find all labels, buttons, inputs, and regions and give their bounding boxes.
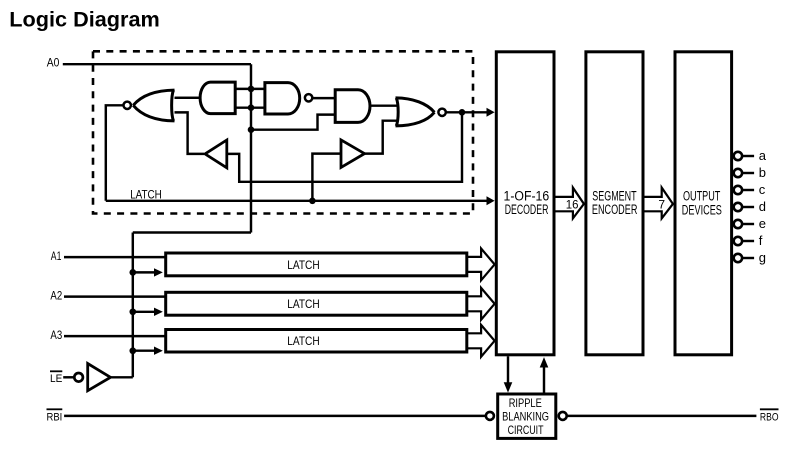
- svg-text:RBI: RBI: [47, 412, 63, 424]
- junction dot enable latch2: [129, 308, 136, 315]
- svg-text:b: b: [759, 165, 766, 180]
- svg-text:e: e: [759, 216, 766, 231]
- gate NAND2 bubble: [305, 94, 312, 101]
- wire LE to bubble: [63, 376, 74, 378]
- wire enable stub latch1 with arrowhead: [133, 271, 155, 273]
- output terminal a: [734, 152, 742, 160]
- svg-text:Logic Diagram: Logic Diagram: [9, 8, 160, 32]
- svg-text:16: 16: [566, 197, 579, 211]
- svg-text:CIRCUIT: CIRCUIT: [508, 423, 544, 437]
- svg-text:A3: A3: [50, 330, 62, 342]
- gate NOR1 (left-facing) body: [133, 90, 174, 121]
- svg-text:RBO: RBO: [760, 412, 779, 424]
- wire buffer B1 input from feedback line: [227, 112, 462, 182]
- wire RBI: [64, 415, 485, 417]
- output terminal d: [734, 203, 742, 211]
- wire AND2 lower input step (from enable riser): [251, 115, 335, 130]
- svg-text:LATCH: LATCH: [287, 297, 320, 311]
- wire NOR1 top input (from AND1 output): [175, 97, 201, 99]
- hollow output arrow latch2: [467, 288, 495, 320]
- wire LE riser (x=132.8): [132, 233, 134, 378]
- svg-text:DEVICES: DEVICES: [682, 202, 722, 217]
- gate NOR1 bubble: [124, 102, 131, 109]
- svg-text:BLANKING: BLANKING: [502, 409, 549, 423]
- wire NOR1 output down-left: [106, 105, 124, 201]
- junction dot (251,107.7): [248, 104, 255, 111]
- svg-text:LATCH: LATCH: [287, 258, 320, 272]
- arrowhead into decoder (y=112.3): [487, 108, 495, 117]
- gate AND2 body: [335, 90, 370, 123]
- junction dot enable latch1: [129, 269, 136, 276]
- svg-text:c: c: [759, 182, 766, 197]
- svg-text:d: d: [759, 199, 766, 214]
- output terminal f: [734, 237, 742, 245]
- wire NOR1 bottom input step (from buffer B1): [175, 112, 205, 153]
- output terminal g: [734, 254, 742, 262]
- svg-text:RIPPLE: RIPPLE: [509, 396, 542, 410]
- svg-text:7: 7: [658, 198, 665, 212]
- wire gate input stub top (y=88.9): [235, 88, 265, 90]
- hollow output arrow latch1: [467, 249, 495, 281]
- latch box 1: [166, 253, 467, 276]
- output terminal e: [734, 220, 742, 228]
- svg-text:LE: LE: [50, 373, 62, 385]
- latch box 2: [166, 292, 467, 315]
- hollow bus arrow encoder->output: [645, 188, 673, 219]
- wire enable cross-over (y=232.5): [133, 231, 251, 233]
- RBO output bubble: [559, 412, 567, 420]
- svg-text:a: a: [759, 148, 767, 163]
- wire RBO: [567, 415, 756, 417]
- wire buffer B2 input from latch output line: [312, 154, 341, 201]
- gate NOR2 bubble: [438, 109, 445, 116]
- wire A2: [64, 295, 166, 297]
- gate NAND2 body: [265, 83, 300, 114]
- arrow decoder down to ripple blanking circuit: [507, 356, 509, 383]
- junction dot (251,88.9): [248, 86, 255, 93]
- buffer LE triangle: [88, 364, 111, 391]
- svg-text:DECODER: DECODER: [505, 202, 549, 217]
- svg-text:LATCH: LATCH: [130, 187, 162, 201]
- wire NOR2 output to decoder: [446, 111, 488, 113]
- wire enable stub latch2 with arrowhead: [133, 311, 155, 313]
- wire buffer B2 output step to NOR2 bottom input: [365, 121, 399, 154]
- svg-text:A1: A1: [51, 251, 62, 263]
- wire NAND2 output to AND2 input: [312, 97, 335, 99]
- hollow bus arrow decoder->encoder: [556, 188, 584, 219]
- junction dot (312.4,200.8): [309, 198, 316, 205]
- wire gate input stub bottom (y=107.7): [235, 106, 265, 108]
- junction dot (251,129.7): [248, 126, 255, 133]
- wire LE buffer output: [111, 376, 133, 378]
- block SEGMENT ENCODER: [586, 52, 643, 355]
- latch box 3: [166, 330, 467, 353]
- block 1-OF-16 DECODER: [496, 52, 554, 355]
- buffer LE bubble: [74, 373, 83, 382]
- svg-text:g: g: [759, 250, 766, 265]
- svg-text:LATCH: LATCH: [287, 334, 320, 348]
- latch detail dashed box: [93, 51, 473, 213]
- gate AND1 (left-facing): [200, 82, 235, 114]
- arrow ripple blanking circuit up to decoder: [543, 366, 545, 393]
- block OUTPUT DEVICES: [675, 52, 732, 355]
- wire A0 horizontal: [63, 63, 251, 65]
- wire AND1 output (to NOR1 top input): [175, 97, 201, 99]
- hollow output arrow latch3: [467, 325, 495, 357]
- buffer B1 (left-facing): [205, 140, 227, 168]
- svg-text:A2: A2: [50, 290, 62, 302]
- wire enable riser inside latch box (x=251): [250, 64, 252, 232]
- svg-text:ENCODER: ENCODER: [592, 202, 638, 217]
- wire A3: [64, 335, 166, 337]
- wire latch output line (y=200.8): [106, 200, 488, 202]
- wire enable stub latch3 with arrowhead: [133, 349, 155, 351]
- arrowhead into decoder (y=200.8): [487, 196, 495, 205]
- wire A1: [64, 256, 166, 258]
- buffer B2 (right-facing): [341, 140, 365, 168]
- svg-text:f: f: [759, 233, 763, 248]
- output terminal c: [734, 186, 742, 194]
- wire AND2 output to NOR2 top input: [370, 104, 399, 106]
- svg-text:A0: A0: [47, 57, 60, 69]
- box RIPPLE BLANKING CIRCUIT: [498, 394, 556, 438]
- RBI input bubble: [486, 412, 494, 420]
- gate NOR2 (right-facing) body: [396, 98, 435, 126]
- junction dot (462,112.3): [459, 109, 466, 116]
- output terminal b: [734, 169, 742, 177]
- junction dot enable latch3: [129, 347, 136, 354]
